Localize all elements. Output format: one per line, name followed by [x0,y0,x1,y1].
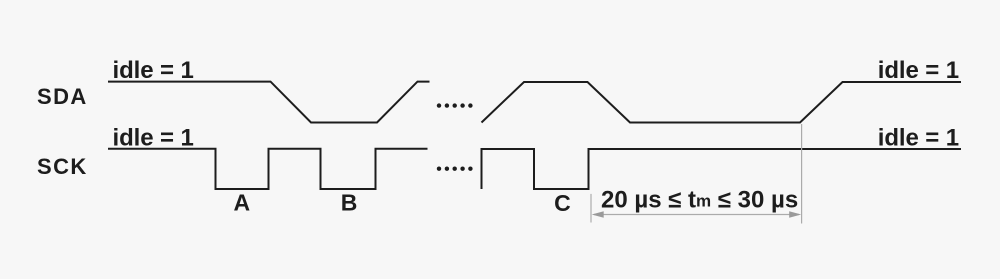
svg-text:idle = 1: idle = 1 [113,57,194,84]
svg-text:idle = 1: idle = 1 [113,124,194,151]
svg-text:idle = 1: idle = 1 [878,57,959,84]
svg-text:SDA: SDA [37,84,88,109]
svg-text:20 µs ≤ tm ≤ 30 µs: 20 µs ≤ tm ≤ 30 µs [601,186,798,213]
svg-text:SCK: SCK [37,154,88,179]
svg-text:idle = 1: idle = 1 [878,124,959,151]
svg-text:A: A [233,189,250,215]
svg-text:C: C [554,190,571,216]
svg-text:B: B [341,189,358,215]
